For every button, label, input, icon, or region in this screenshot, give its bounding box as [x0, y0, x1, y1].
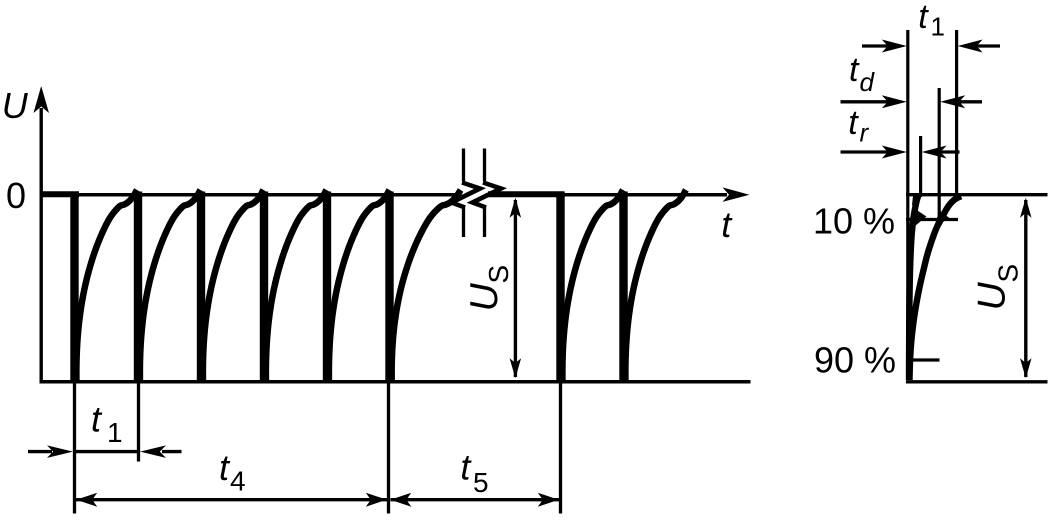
detail extension line C (td end)	[938, 88, 941, 221]
pulse 8 exponential recovery curve	[625, 190, 686, 381]
t1 dimension right arrow	[162, 450, 182, 453]
t axis (zero line)	[40, 193, 462, 197]
t axis arrowhead	[723, 187, 750, 202]
US dimension arrow (main)	[514, 200, 517, 377]
10% crossing marker on recovery curve	[934, 211, 950, 229]
10 percent level tick	[906, 218, 958, 221]
detail recovery curve	[910, 196, 962, 380]
pulse 1 falling edge	[70, 192, 78, 382]
svg-text:t: t	[918, 0, 929, 36]
pulse 7 exponential recovery curve	[562, 190, 623, 381]
pulse 2 exponential recovery curve	[140, 190, 201, 381]
axis break mark right	[483, 149, 486, 182]
svg-text:U: U	[971, 282, 1014, 311]
tr dimension arrows (detail)	[841, 150, 900, 153]
svg-text:10 %: 10 %	[813, 201, 895, 242]
pulse 3 exponential recovery curve	[203, 190, 264, 381]
t5 dimension arrow	[391, 498, 560, 501]
detail zero line	[906, 193, 1048, 196]
detail extension line A (pulse start)	[906, 30, 909, 378]
pulse 6 falling edge	[385, 192, 393, 382]
axis break mark left	[462, 149, 465, 182]
detail extension line B (tr end)	[919, 136, 922, 197]
90 percent level tick	[906, 358, 940, 361]
svg-text:1: 1	[931, 12, 945, 42]
svg-text:1: 1	[107, 417, 123, 448]
extension line at pulse 7	[559, 383, 562, 514]
pulse 4 falling edge	[260, 192, 268, 382]
detail extension line E (t1 end)	[955, 30, 958, 195]
t axis right part	[488, 193, 728, 197]
td dimension arrows (detail)	[841, 100, 900, 103]
US dimension arrow (detail)	[1024, 200, 1027, 377]
extension line at pulse 6	[387, 383, 390, 514]
detail edge top widening	[912, 196, 922, 210]
svg-text:4: 4	[230, 466, 246, 497]
pulse 4 exponential recovery curve	[266, 190, 327, 381]
pulse 5 falling edge	[323, 192, 331, 382]
svg-text:d: d	[860, 67, 876, 97]
svg-text:5: 5	[473, 467, 489, 498]
svg-text:t: t	[849, 51, 860, 89]
U axis arrowhead	[34, 86, 50, 113]
pulse 3 falling edge	[197, 192, 205, 382]
svg-text:U: U	[463, 283, 506, 312]
svg-text:r: r	[860, 118, 870, 148]
label US (main, rotated)	[463, 265, 514, 312]
detail pulse falling edge curve	[909, 195, 918, 381]
pulse 7 falling edge	[556, 192, 564, 382]
extension line at pulse 2	[137, 383, 140, 462]
t1 dimension arrows (detail)	[862, 44, 900, 47]
detail baseline (-US level)	[906, 380, 1048, 383]
svg-text:S: S	[993, 264, 1024, 283]
waveform zero segment after axis break	[488, 191, 564, 197]
pulse 2 falling edge	[134, 192, 142, 382]
t4 dimension arrow	[76, 498, 387, 501]
t1 dimension left arrow	[28, 450, 52, 453]
extension line at pulse 1	[73, 383, 76, 514]
pulse 6 exponential recovery curve	[392, 190, 461, 381]
label US (detail, rotated)	[971, 264, 1024, 311]
svg-text:S: S	[483, 265, 514, 284]
svg-text:U: U	[2, 85, 29, 126]
pulse 8 falling edge	[619, 192, 627, 382]
t1 dimension line	[75, 450, 139, 453]
pulse 1 exponential recovery curve	[76, 190, 137, 381]
pulse 5 exponential recovery curve	[329, 190, 390, 381]
baseline (-US level)	[40, 380, 751, 384]
svg-text:0: 0	[6, 175, 26, 216]
svg-text:90 %: 90 %	[814, 340, 896, 381]
svg-text:t: t	[848, 104, 859, 142]
10% crossing marker on falling edge	[913, 210, 927, 228]
waveform zero segment before first pulse	[40, 191, 80, 197]
U axis (vertical axis line)	[40, 108, 43, 383]
